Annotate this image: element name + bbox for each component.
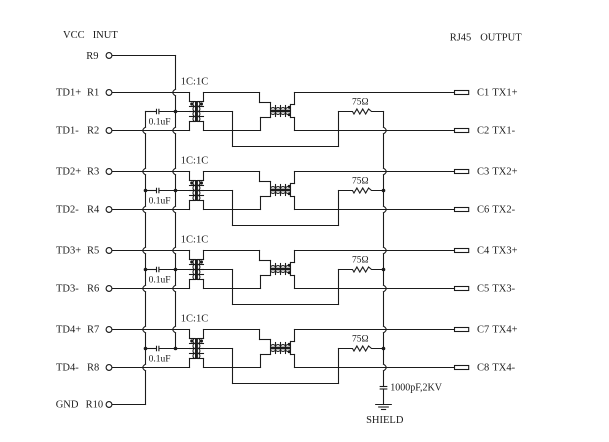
svg-text:OUTPUT: OUTPUT [480, 33, 522, 44]
svg-text:TD1+: TD1+ [56, 87, 81, 98]
wire transformer T2 secondary top to choke [204, 172, 271, 182]
wire center tap row group 1 [176, 111, 233, 113]
svg-text:1C:1C: 1C:1C [181, 313, 208, 324]
wire center-tap routing group 2 [233, 191, 339, 226]
wire transformer T1 secondary top to choke [204, 93, 271, 103]
svg-text:0.1uF: 0.1uF [149, 197, 171, 207]
wire choke L3 to TX3- output [291, 276, 455, 289]
svg-text:TX4-: TX4- [492, 363, 515, 374]
svg-text:0.1uF: 0.1uF [149, 276, 171, 286]
svg-text:TD2-: TD2- [56, 204, 79, 215]
svg-text:75Ω: 75Ω [352, 335, 369, 345]
svg-text:TD3+: TD3+ [56, 245, 81, 256]
svg-text:C1: C1 [477, 88, 489, 99]
wire transformer T3 secondary top to choke [204, 251, 271, 261]
wire transformer T2 secondary bottom to choke [204, 197, 271, 210]
svg-text:75Ω: 75Ω [352, 256, 369, 266]
svg-text:R10: R10 [86, 399, 104, 410]
value label 75 ohm group 4 [352, 335, 369, 345]
pin R8 [106, 365, 112, 371]
svg-text:R2: R2 [87, 125, 99, 136]
wire center tap row group 4 [176, 348, 233, 350]
svg-text:R9: R9 [86, 51, 98, 62]
svg-text:TD4-: TD4- [56, 362, 79, 373]
svg-text:75Ω: 75Ω [352, 98, 369, 108]
junction VCC bus / center-tap rows [174, 110, 178, 351]
svg-text:R1: R1 [87, 87, 99, 98]
pin R4 [106, 207, 112, 213]
svg-text:RJ45: RJ45 [450, 33, 472, 44]
svg-text:1C:1C: 1C:1C [181, 155, 208, 166]
common-mode choke L2 [270, 182, 291, 197]
svg-text:C5: C5 [477, 284, 489, 295]
svg-text:R5: R5 [87, 245, 99, 256]
capacitor 1000pF 2KV [380, 387, 387, 405]
svg-text:R4: R4 [87, 204, 100, 215]
terminal label C6 TX2- [477, 205, 516, 216]
wire choke L3 to TX3+ output [291, 251, 455, 263]
svg-text:R3: R3 [87, 166, 99, 177]
svg-text:TX1+: TX1+ [492, 88, 517, 99]
pin R5 [106, 248, 112, 254]
wire choke L4 to TX4+ output [291, 330, 455, 342]
wire TD1+ row [112, 92, 189, 94]
wire choke L1 to TX1- output [291, 118, 455, 131]
svg-text:1000pF,2KV: 1000pF,2KV [390, 382, 442, 393]
resistor 75 ohm group 3 [339, 267, 384, 272]
svg-text:0.1uF: 0.1uF [149, 355, 171, 365]
common-mode choke L1 [270, 103, 291, 118]
wire TD3+ row [112, 250, 189, 252]
wire TD3- row [112, 288, 189, 290]
net label RJ45 [450, 33, 472, 44]
pin label TD3+ R5 [56, 245, 99, 256]
svg-text:C3: C3 [477, 167, 489, 178]
svg-text:C7: C7 [477, 325, 489, 336]
value label 75 ohm group 3 [352, 256, 369, 266]
capacitor C 0.1uF group 2 [146, 188, 176, 192]
svg-text:1C:1C: 1C:1C [181, 234, 208, 245]
resistor 75 ohm group 1 [339, 109, 384, 114]
shield termination bus [384, 112, 387, 387]
wire R10 to GND bus [112, 404, 145, 406]
wire center tap row group 3 [176, 269, 233, 271]
wire transformer T1 secondary bottom to choke [204, 118, 271, 131]
pin R10 [106, 402, 112, 408]
capacitor C 0.1uF group 3 [146, 267, 176, 271]
svg-text:C2: C2 [477, 126, 489, 137]
capacitor C 0.1uF group 4 [146, 346, 176, 350]
terminal label C2 TX1- [477, 126, 516, 137]
VCC center-tap bus [173, 56, 176, 349]
svg-text:TX3+: TX3+ [492, 246, 517, 257]
svg-text:TD3-: TD3- [56, 283, 79, 294]
pin label TD4+ R7 [56, 324, 99, 335]
terminal C2 [455, 129, 469, 133]
terminal label C3 TX2+ [477, 167, 518, 178]
resistor 75 ohm group 2 [339, 188, 384, 193]
wire TD4- row [112, 367, 189, 369]
terminal C6 [455, 208, 469, 212]
pin label TD2- R4 [56, 204, 100, 215]
wire center-tap routing group 1 [233, 112, 339, 147]
svg-text:VCC: VCC [63, 30, 85, 41]
pin R9 label [86, 51, 98, 62]
terminal label C4 TX3+ [477, 246, 518, 257]
svg-text:75Ω: 75Ω [352, 177, 369, 187]
common-mode choke L3 [270, 261, 291, 276]
terminal C8 [455, 366, 469, 370]
wire choke L1 to TX1+ output [291, 93, 455, 105]
terminal label C7 TX4+ [477, 325, 518, 336]
label 1C:1C group 3 [181, 234, 208, 245]
svg-text:0.1uF: 0.1uF [149, 118, 171, 128]
value label 0.1uF group 4 [149, 355, 171, 365]
wire choke L2 to TX2- output [291, 197, 455, 210]
svg-text:TX2-: TX2- [492, 205, 515, 216]
transformer T2 1C:1C [190, 172, 204, 210]
terminal label C8 TX4- [477, 363, 516, 374]
svg-text:1C:1C: 1C:1C [181, 76, 208, 87]
terminal C1 [455, 91, 469, 95]
terminal C3 [455, 170, 469, 174]
capacitor C 0.1uF group 1 [146, 109, 176, 113]
svg-text:TD1-: TD1- [56, 125, 79, 136]
svg-text:TX3-: TX3- [492, 284, 515, 295]
common-mode choke L4 [270, 340, 291, 355]
value label 75 ohm group 1 [352, 98, 369, 108]
pin R10 label [56, 399, 103, 410]
wire TD1- row [112, 130, 189, 132]
pin label TD2+ R3 [56, 166, 99, 177]
pin label TD1- R2 [56, 125, 99, 136]
wire center-tap routing group 4 [233, 349, 339, 384]
net label OUTPUT [480, 33, 522, 44]
label 1C:1C group 2 [181, 155, 208, 166]
value label 0.1uF group 1 [149, 118, 171, 128]
svg-text:TX2+: TX2+ [492, 167, 517, 178]
svg-text:C6: C6 [477, 205, 489, 216]
wire transformer T4 secondary bottom to choke [204, 355, 271, 368]
wire TD2+ row [112, 171, 189, 173]
svg-text:SHIELD: SHIELD [366, 415, 404, 426]
transformer T4 1C:1C [190, 330, 204, 368]
wire center tap row group 2 [176, 190, 233, 192]
svg-text:TD4+: TD4+ [56, 324, 81, 335]
value label 0.1uF group 2 [149, 197, 171, 207]
pin R7 [106, 327, 112, 333]
wire TD2- row [112, 209, 189, 211]
transformer T3 1C:1C [190, 251, 204, 289]
net label INUT [93, 30, 119, 41]
terminal C5 [455, 287, 469, 291]
svg-text:INUT: INUT [93, 30, 119, 41]
wire transformer T3 secondary bottom to choke [204, 276, 271, 289]
label 1C:1C group 4 [181, 313, 208, 324]
wire choke L2 to TX2+ output [291, 172, 455, 184]
terminal C4 [455, 249, 469, 253]
svg-text:GND: GND [56, 399, 79, 410]
value label 0.1uF group 3 [149, 276, 171, 286]
terminal label C1 TX1+ [477, 88, 518, 99]
junction GND bus / cap rows [144, 189, 148, 351]
ground SHIELD [376, 405, 392, 410]
pin R9 [106, 53, 112, 59]
svg-text:C8: C8 [477, 363, 489, 374]
pin label TD4- R8 [56, 362, 99, 373]
wire transformer T4 secondary top to choke [204, 330, 271, 340]
pin R2 [106, 128, 112, 134]
terminal label C5 TX3- [477, 284, 516, 295]
pin R1 [106, 90, 112, 96]
net label VCC [63, 30, 85, 41]
wire TD4+ row [112, 329, 189, 331]
pin R3 [106, 169, 112, 175]
value label 75 ohm group 2 [352, 177, 369, 187]
wire R9 to VCC bus [112, 55, 175, 57]
GND capacitor bus [143, 112, 146, 405]
svg-text:R8: R8 [87, 362, 99, 373]
wire center-tap routing group 3 [233, 270, 339, 305]
resistor 75 ohm group 4 [339, 346, 384, 351]
label 1C:1C group 1 [181, 76, 208, 87]
value label 1000pF,2KV [390, 382, 442, 393]
svg-text:R7: R7 [87, 324, 99, 335]
svg-text:R6: R6 [87, 283, 99, 294]
pin label TD1+ R1 [56, 87, 99, 98]
pin label TD3- R6 [56, 283, 99, 294]
svg-text:TD2+: TD2+ [56, 166, 81, 177]
junction shield bus / 75 ohm rows [382, 189, 386, 351]
svg-text:TX4+: TX4+ [492, 325, 517, 336]
transformer T1 1C:1C [190, 93, 204, 131]
wire choke L4 to TX4- output [291, 355, 455, 368]
svg-text:C4: C4 [477, 246, 490, 257]
svg-text:TX1-: TX1- [492, 126, 515, 137]
net label SHIELD [366, 415, 404, 426]
pin R6 [106, 286, 112, 292]
terminal C7 [455, 328, 469, 332]
